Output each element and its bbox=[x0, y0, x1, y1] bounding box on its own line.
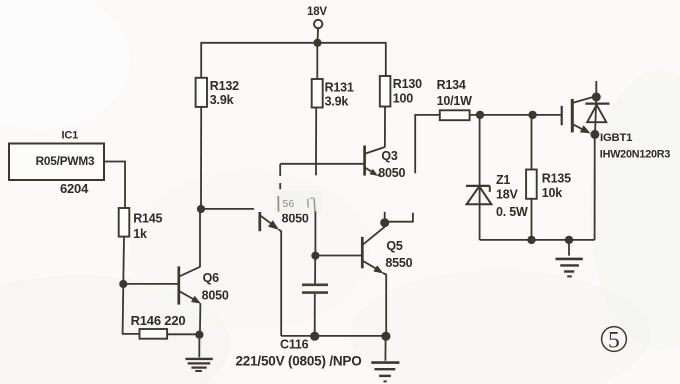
wire: IGBT emitter down to clamp bus bbox=[594, 134, 596, 240]
wire: base node down to R146 bbox=[123, 284, 140, 334]
page number: circled 5 bbox=[602, 327, 627, 354]
svg-text:IGBT1: IGBT1 bbox=[600, 132, 632, 144]
wire: rail drop to R131 bbox=[316, 43, 318, 79]
svg-text:Q3: Q3 bbox=[381, 149, 398, 163]
wire: R130 bottom to Q3 collector bbox=[384, 107, 386, 148]
svg-text:R145: R145 bbox=[133, 211, 162, 225]
node: R135 top junction bbox=[528, 111, 536, 119]
wire: rail right drop to R130 bbox=[385, 42, 387, 76]
wire: rail left drop to R132 bbox=[200, 42, 202, 79]
wire: IC1 output to R145 bbox=[104, 162, 125, 209]
svg-text:Q5: Q5 bbox=[386, 239, 403, 253]
wire: 18V top rail bbox=[201, 42, 386, 44]
wire: R132 bottom to node bbox=[200, 107, 202, 209]
svg-text:R131: R131 bbox=[325, 80, 354, 94]
wire: R146 to Q6 emitter node bbox=[167, 333, 199, 335]
node: ground junction on clamp bus bbox=[565, 236, 573, 244]
power terminal 18V bbox=[314, 20, 322, 40]
node: R135 bottom junction bbox=[527, 236, 535, 244]
resistor R145 bbox=[119, 208, 163, 241]
svg-text:56: 56 bbox=[283, 198, 295, 210]
wire: R145 bottom to base node bbox=[122, 237, 125, 284]
wire: node to Q4 base bbox=[201, 208, 254, 210]
IC U: IC1 R05/PWM3 box bbox=[9, 130, 104, 197]
node: R132/Q6 collector junction bbox=[197, 205, 205, 213]
resistor R135 bbox=[526, 170, 571, 200]
resistor R134 bbox=[437, 78, 473, 120]
wire: R131 bottom column (fades at smudge) bbox=[315, 108, 317, 176]
resistor R146 bbox=[131, 313, 186, 339]
zener Z1 bbox=[466, 115, 491, 240]
svg-text:R134: R134 bbox=[437, 78, 466, 92]
svg-text:18V: 18V bbox=[496, 188, 519, 202]
svg-text:10/1W: 10/1W bbox=[437, 94, 473, 108]
node: Q6 base junction bbox=[119, 280, 127, 288]
transistor Q4 (unmarked 8050, middle) bbox=[260, 164, 281, 336]
svg-text:R130: R130 bbox=[393, 77, 422, 91]
wire: C116 bottom lead bbox=[314, 294, 316, 336]
svg-text:8050: 8050 bbox=[202, 289, 229, 303]
svg-text:100: 100 bbox=[393, 92, 414, 106]
svg-text:3.9k: 3.9k bbox=[210, 93, 234, 107]
svg-text:R05/PWM3: R05/PWM3 bbox=[36, 154, 95, 168]
svg-text:6204: 6204 bbox=[60, 181, 89, 196]
svg-text:1k: 1k bbox=[133, 227, 147, 241]
transistor Q6 (NPN 8050) bbox=[123, 209, 201, 335]
svg-text:18V: 18V bbox=[307, 6, 327, 18]
node: IGBT collector junction bbox=[592, 92, 601, 101]
svg-text:C116: C116 bbox=[280, 338, 309, 352]
svg-text:R146 220: R146 220 bbox=[131, 313, 186, 328]
wire: node to Q5 base bbox=[315, 255, 362, 257]
node: Q5 base junction bbox=[311, 252, 319, 260]
transistor Q3 (NPN 8050) bbox=[365, 146, 385, 177]
svg-text:221/50V (0805) /NPO: 221/50V (0805) /NPO bbox=[236, 354, 362, 369]
wire: R134 right to IGBT gate bbox=[470, 114, 562, 116]
svg-text:IHW20N120R3: IHW20N120R3 bbox=[600, 148, 671, 160]
ground (under Q6 emitter) bbox=[186, 335, 213, 371]
wire: Q4 collector line to Q3 base bbox=[280, 163, 364, 165]
ground (under C116 bus) bbox=[371, 336, 399, 381]
wire: R134 left lead and drop bbox=[415, 115, 440, 173]
wire: R135 bottom lead bbox=[531, 199, 533, 240]
svg-text:R132: R132 bbox=[210, 79, 239, 93]
svg-text:8550: 8550 bbox=[385, 256, 412, 270]
resistor R131 bbox=[312, 79, 354, 109]
node: Q5 emitter / ground junction bbox=[381, 332, 390, 341]
transistor Q5 (PNP 8550) bbox=[362, 227, 386, 336]
svg-text:Z1: Z1 bbox=[496, 173, 510, 187]
wire: node down to C116 bbox=[314, 256, 316, 284]
IGBT IGBT1 bbox=[562, 81, 610, 134]
svg-text:0. 5W: 0. 5W bbox=[496, 205, 528, 219]
node: Z1 top junction bbox=[476, 111, 484, 119]
node: C116 bottom junction bbox=[310, 332, 319, 341]
wire: bottom emitter bus bbox=[281, 335, 386, 337]
wire: R135 top lead bbox=[531, 115, 533, 170]
wire: stub up from junction bbox=[384, 212, 386, 222]
svg-text:10k: 10k bbox=[542, 186, 563, 200]
capacitor C116 bbox=[302, 285, 328, 293]
wire: cap column above Q5 base node bbox=[314, 212, 316, 256]
svg-text:Q6: Q6 bbox=[203, 271, 220, 285]
ground (clamp bus) bbox=[556, 240, 583, 277]
wire: junction elbow toward R134 drop bbox=[385, 213, 413, 222]
svg-text:3.9k: 3.9k bbox=[325, 95, 349, 109]
svg-text:8050: 8050 bbox=[378, 166, 405, 180]
svg-text:5: 5 bbox=[608, 327, 620, 353]
node: Q3 emitter / Q5 collector junction bbox=[380, 218, 389, 227]
svg-text:IC1: IC1 bbox=[62, 130, 79, 142]
svg-text:R135: R135 bbox=[542, 172, 571, 186]
resistor R130 bbox=[380, 76, 422, 107]
node: Q6 emitter junction bbox=[195, 331, 203, 339]
resistor R132 bbox=[196, 78, 240, 107]
node: rail junction dot bbox=[313, 39, 321, 47]
smudge: whiteout artifact with faint 56 marks bbox=[274, 190, 322, 214]
node: IGBT emitter junction bbox=[590, 130, 599, 139]
wire: clamp bottom bus bbox=[480, 239, 595, 241]
